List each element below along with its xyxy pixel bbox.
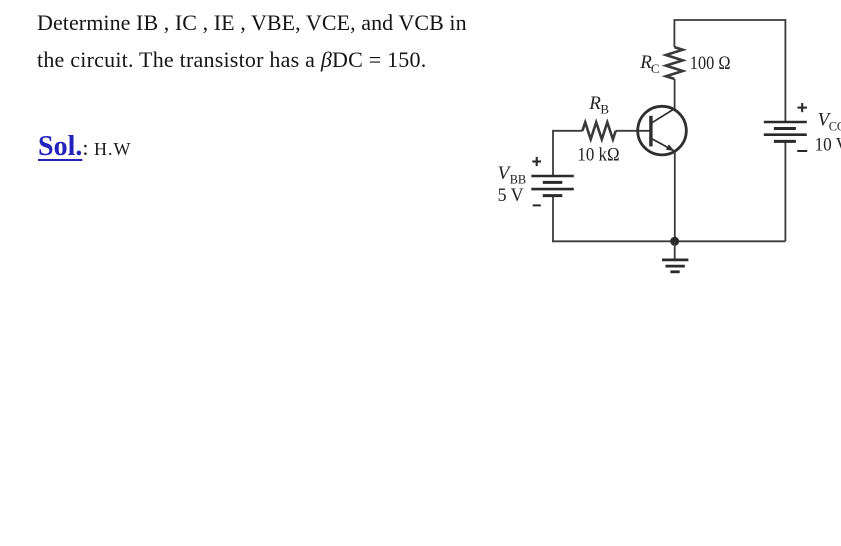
svg-text:10 V: 10 V bbox=[815, 135, 841, 156]
resistor RB zigzag bbox=[582, 122, 615, 139]
wire left vertical lower (VBB - to bottom) bbox=[552, 196, 554, 243]
wire RC top stub bbox=[673, 19, 675, 47]
problem statement text bbox=[37, 4, 467, 78]
battery VBB short plate upper bbox=[543, 181, 563, 184]
battery VBB long plate top bbox=[531, 175, 574, 178]
battery VBB long plate lower bbox=[531, 188, 574, 191]
resistor RC zigzag bbox=[666, 47, 683, 79]
wire bottom horizontal bbox=[552, 240, 785, 242]
wire right vertical lower (VCC - to bottom) bbox=[784, 141, 786, 241]
svg-text:5 V: 5 V bbox=[498, 185, 524, 206]
svg-text:10 kΩ: 10 kΩ bbox=[577, 145, 620, 166]
ground stub wire bbox=[674, 241, 676, 258]
ground bar 1 bbox=[662, 258, 688, 261]
node ground junction dot bbox=[670, 237, 679, 246]
wire left vertical upper (to VBB +) bbox=[552, 130, 554, 176]
wire top horizontal bbox=[674, 19, 785, 21]
solution heading bbox=[38, 131, 131, 163]
wire base right segment (RB to base) bbox=[616, 130, 650, 132]
battery VCC short plate bottom bbox=[774, 140, 796, 143]
wire right vertical upper (to VCC +) bbox=[784, 19, 786, 122]
wire base left segment (VBB to RB) bbox=[553, 130, 582, 132]
transistor Q1 collector line bbox=[652, 108, 675, 122]
transistor Q1 emitter arrowhead bbox=[666, 144, 674, 151]
battery VBB plus sign bbox=[532, 157, 541, 166]
transistor Q1 circle bbox=[638, 106, 687, 155]
battery VCC short plate upper bbox=[774, 127, 796, 130]
ground bar 3 bbox=[670, 270, 679, 273]
svg-text:C: C bbox=[651, 61, 660, 76]
battery VCC minus sign bbox=[797, 150, 807, 152]
battery VCC long plate lower bbox=[764, 133, 807, 136]
svg-text:CC: CC bbox=[829, 118, 841, 133]
wire emitter to ground node bbox=[674, 151, 676, 241]
battery VCC long plate top bbox=[764, 121, 807, 124]
transistor Q1 base bar bbox=[649, 116, 652, 147]
transistor Q1 emitter line bbox=[652, 139, 674, 151]
wire RC bottom to collector bbox=[674, 79, 676, 109]
svg-text:B: B bbox=[600, 102, 609, 117]
ground bar 2 bbox=[666, 265, 685, 268]
battery VCC plus sign bbox=[797, 103, 807, 112]
battery VBB short plate bottom bbox=[543, 194, 563, 197]
svg-text:R: R bbox=[588, 93, 601, 114]
battery VBB minus sign bbox=[533, 204, 541, 206]
svg-text:100 Ω: 100 Ω bbox=[690, 53, 731, 74]
